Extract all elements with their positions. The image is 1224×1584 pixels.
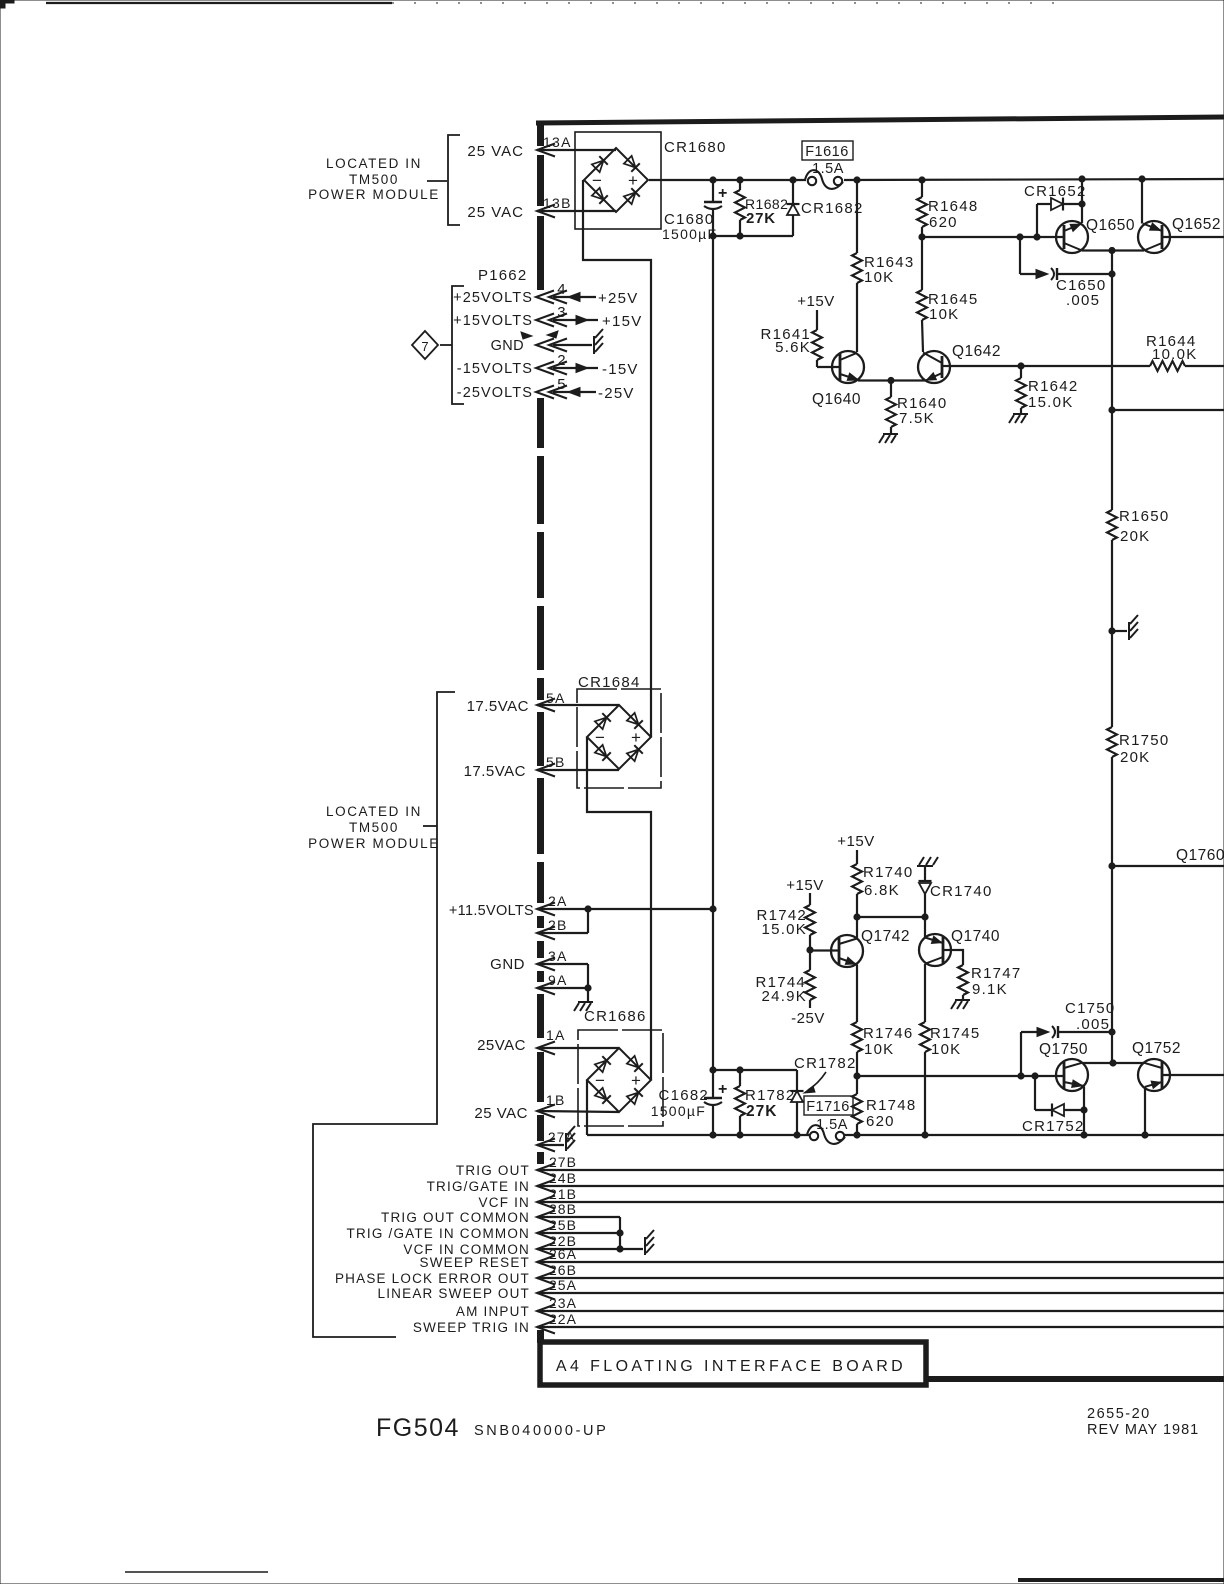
page bottom-left tick line xyxy=(125,1571,268,1573)
board outline: left dashed thick bar xyxy=(537,123,544,146)
svg-text:Q1642: Q1642 xyxy=(952,343,1001,360)
svg-text:25 VAC: 25 VAC xyxy=(467,143,524,160)
svg-text:1B: 1B xyxy=(546,1092,566,1108)
svg-text:R1648: R1648 xyxy=(928,198,978,215)
svg-text:24.9K: 24.9K xyxy=(762,988,807,1005)
svg-text:PHASE LOCK ERROR OUT: PHASE LOCK ERROR OUT xyxy=(335,1271,530,1286)
svg-text:Q1752: Q1752 xyxy=(1132,1040,1181,1057)
svg-text:REV MAY 1981: REV MAY 1981 xyxy=(1087,1422,1199,1438)
board outline: bottom thick line to edge xyxy=(926,1376,1224,1382)
svg-text:+15V: +15V xyxy=(602,313,642,330)
svg-text:27B: 27B xyxy=(549,1154,577,1170)
wire: Q1642 collector line to R1644 xyxy=(950,365,1150,367)
svg-text:CR1684: CR1684 xyxy=(578,674,641,691)
svg-text:27K: 27K xyxy=(746,1103,777,1120)
svg-text:A4 FLOATING INTERFACE BOARD: A4 FLOATING INTERFACE BOARD xyxy=(556,1358,906,1375)
svg-text:5.6K: 5.6K xyxy=(775,339,811,356)
svg-text:+15VOLTS: +15VOLTS xyxy=(453,313,533,329)
svg-text:Q1650: Q1650 xyxy=(1086,217,1135,234)
svg-text:LOCATED IN: LOCATED IN xyxy=(326,156,422,171)
svg-text:3: 3 xyxy=(557,304,567,321)
pin 22A SWEEP TRIG IN xyxy=(413,1311,1224,1335)
resistor R1742 15.0K xyxy=(757,905,815,950)
wire: common rail C1680 bottom to C1682 top xyxy=(712,236,714,1070)
wire: main vertical bus x=1112 xyxy=(1111,251,1113,511)
zener CR1682 xyxy=(787,180,864,236)
pin 22B VCF IN COMMON xyxy=(403,1233,643,1257)
svg-text:VCF IN: VCF IN xyxy=(479,1195,530,1210)
pin 5A 17.5VAC xyxy=(467,690,619,715)
ground for 9A xyxy=(574,1002,593,1011)
svg-text:TRIG OUT: TRIG OUT xyxy=(456,1163,530,1178)
svg-text:LINEAR SWEEP OUT: LINEAR SWEEP OUT xyxy=(378,1286,530,1301)
capacitor C1680 1500uF xyxy=(662,180,727,242)
svg-text:Q1760: Q1760 xyxy=(1176,847,1224,864)
diode CR1752 xyxy=(1022,1076,1085,1135)
svg-text:Q1640: Q1640 xyxy=(812,391,861,408)
pin 2 -15VOLTS xyxy=(457,352,639,378)
note: located in TM500 power module (upper) xyxy=(308,135,460,225)
svg-text:-25V: -25V xyxy=(598,385,635,402)
pin 23A AM INPUT xyxy=(456,1295,1224,1319)
pin 24B TRIG/GATE IN xyxy=(427,1170,1224,1194)
svg-text:+: + xyxy=(718,1081,727,1098)
svg-text:25VAC: 25VAC xyxy=(477,1037,526,1054)
svg-text:25B: 25B xyxy=(549,1217,577,1233)
svg-text:24B: 24B xyxy=(549,1170,577,1186)
svg-text:TM500: TM500 xyxy=(349,172,399,187)
svg-text:C1682: C1682 xyxy=(659,1087,709,1104)
svg-text:2B: 2B xyxy=(548,917,568,933)
svg-text:R1747: R1747 xyxy=(971,965,1021,982)
svg-text:R1650: R1650 xyxy=(1119,508,1169,525)
svg-text:5B: 5B xyxy=(546,754,566,770)
svg-text:2: 2 xyxy=(557,352,567,369)
page top-left corner tick xyxy=(0,0,14,8)
wire: bottom floating rail xyxy=(587,1134,810,1136)
wire: Q1640/Q1642 emitter rail xyxy=(858,379,925,381)
svg-text:4: 4 xyxy=(557,281,567,298)
bridge rectifier CR1686 xyxy=(578,1008,663,1126)
svg-text:10K: 10K xyxy=(929,306,959,323)
svg-text:13B: 13B xyxy=(543,195,572,211)
+15V for R1742 xyxy=(786,877,823,905)
transistor Q1742 xyxy=(810,928,910,967)
svg-text:20K: 20K xyxy=(1120,528,1150,545)
svg-text:6.8K: 6.8K xyxy=(864,882,900,899)
svg-text:+: + xyxy=(718,185,727,202)
resistor R1640 7.5K xyxy=(886,381,947,434)
+15V supply for R1641 xyxy=(797,293,834,330)
resistor R1746 10K xyxy=(852,965,913,1077)
resistor R1641 5.6K xyxy=(761,326,822,367)
svg-text:10K: 10K xyxy=(931,1041,961,1058)
svg-text:+: + xyxy=(628,171,638,190)
pin 25B TRIG /GATE IN COMMON xyxy=(347,1217,621,1241)
svg-text:CR1686: CR1686 xyxy=(584,1008,647,1025)
svg-text:1500µF: 1500µF xyxy=(651,1103,706,1119)
resistor R1745 10K xyxy=(920,964,980,1135)
ground under R1642 xyxy=(1009,414,1028,423)
svg-text:2655-20: 2655-20 xyxy=(1087,1406,1151,1422)
resistor R1782 27K xyxy=(735,1070,795,1135)
svg-text:POWER MODULE: POWER MODULE xyxy=(308,187,440,202)
svg-text:+15V: +15V xyxy=(837,833,874,850)
diode CR1782 xyxy=(791,1055,857,1135)
ground stub on bus xyxy=(1109,615,1138,640)
svg-text:17.5VAC: 17.5VAC xyxy=(464,763,526,780)
resistor R1644 10.0K xyxy=(1146,333,1224,371)
svg-text:Q1652: Q1652 xyxy=(1172,216,1221,233)
wire: rail above R1782 xyxy=(713,1069,797,1071)
wire: CR1686 minus to bottom rail xyxy=(586,1080,588,1135)
bridge rectifier CR1680 xyxy=(575,132,727,229)
svg-text:10.0K: 10.0K xyxy=(1152,346,1197,363)
diode CR1740 with chassis ground xyxy=(917,857,993,917)
resistor R1645 10K xyxy=(917,237,978,352)
transistor Q1652 xyxy=(1138,216,1224,253)
svg-text:POWER MODULE: POWER MODULE xyxy=(308,836,440,851)
svg-text:1.5A: 1.5A xyxy=(812,161,844,177)
svg-text:R1746: R1746 xyxy=(863,1025,913,1042)
wire: output line y=410 xyxy=(1109,407,1115,413)
svg-text:2A: 2A xyxy=(548,893,568,909)
svg-text:25 VAC: 25 VAC xyxy=(467,204,524,221)
svg-text:9.1K: 9.1K xyxy=(972,981,1008,998)
pin 21B VCF IN xyxy=(479,1186,1224,1210)
wire: +unregulated top rail xyxy=(649,179,806,181)
svg-text:27K: 27K xyxy=(746,210,776,227)
transistor Q1642 xyxy=(918,343,1001,383)
svg-text:13A: 13A xyxy=(543,134,572,150)
svg-text:Q1742: Q1742 xyxy=(861,928,910,945)
wire: Q1742 collector xyxy=(856,917,858,939)
svg-text:-25VOLTS: -25VOLTS xyxy=(457,385,533,401)
resistor R1750 20K xyxy=(1107,727,1169,766)
svg-text:17.5VAC: 17.5VAC xyxy=(467,698,529,715)
svg-text:GND: GND xyxy=(491,338,524,354)
+15V for R1740 xyxy=(837,833,874,864)
transistor Q1750 xyxy=(1039,1041,1088,1091)
svg-text:CR1680: CR1680 xyxy=(664,139,727,156)
svg-text:21B: 21B xyxy=(549,1186,577,1202)
resistor R1740 6.8K xyxy=(852,864,913,917)
svg-text:R1642: R1642 xyxy=(1028,378,1078,395)
wire: CR1680 minus to CR1684 plus xyxy=(583,180,651,737)
svg-text:7.5K: 7.5K xyxy=(899,410,935,427)
resistor R1650 20K xyxy=(1107,508,1169,545)
svg-text:7: 7 xyxy=(421,339,428,354)
svg-text:TM500: TM500 xyxy=(349,820,399,835)
svg-text:CR1682: CR1682 xyxy=(801,200,864,217)
resistor R1643 10K xyxy=(852,180,914,352)
wire: Q1750 base drive rail xyxy=(857,1075,1064,1077)
capacitor C1750 .005 xyxy=(1021,1000,1115,1076)
svg-text:C1750: C1750 xyxy=(1065,1000,1115,1017)
pin 1B 25VAC xyxy=(474,1092,619,1122)
svg-text:5A: 5A xyxy=(546,690,566,706)
board outline: top thick border xyxy=(536,117,1224,123)
svg-text:SWEEP RESET: SWEEP RESET xyxy=(420,1255,530,1270)
svg-text:TRIG/GATE IN: TRIG/GATE IN xyxy=(427,1179,530,1194)
pin 28B TRIG OUT COMMON xyxy=(381,1201,620,1225)
svg-text:26B: 26B xyxy=(549,1262,577,1278)
wire: 28B/25B/22B common tie xyxy=(619,1217,621,1249)
svg-text:TRIG /GATE IN COMMON: TRIG /GATE IN COMMON xyxy=(347,1226,531,1241)
page bottom-right edge bar xyxy=(1018,1578,1224,1582)
svg-text:+: + xyxy=(631,1071,641,1090)
svg-text:23A: 23A xyxy=(549,1295,577,1311)
ground under R1747 xyxy=(951,1000,970,1009)
wire: Q1650 base rail xyxy=(922,236,1064,238)
svg-text:LOCATED IN: LOCATED IN xyxy=(326,804,422,819)
svg-text:620: 620 xyxy=(866,1113,895,1130)
pin 2A +11.5VOLTS xyxy=(449,893,716,919)
wire: CR1684 minus down-around to CR1686 plus xyxy=(587,737,651,1080)
svg-text:GND: GND xyxy=(490,956,525,973)
svg-text:SWEEP TRIG IN: SWEEP TRIG IN xyxy=(413,1320,530,1335)
ground under R1640 xyxy=(879,434,898,443)
svg-text:+: + xyxy=(631,728,641,747)
svg-text:−: − xyxy=(592,171,602,190)
resistor R1744 24.9K xyxy=(756,950,815,1008)
svg-text:R1740: R1740 xyxy=(863,864,913,881)
svg-text:25 VAC: 25 VAC xyxy=(474,1105,528,1122)
pin 5B 17.5VAC xyxy=(464,754,619,780)
reference diamond 7 xyxy=(412,331,452,359)
wire: Q1650 collector to top rail xyxy=(1081,179,1083,223)
svg-text:5: 5 xyxy=(557,376,567,393)
fuse F1616 1.5A xyxy=(802,141,853,189)
wire: R1740/CR1740 node rail xyxy=(857,916,925,918)
svg-text:TRIG OUT COMMON: TRIG OUT COMMON xyxy=(381,1210,530,1225)
pin 26B PHASE LOCK ERROR OUT xyxy=(335,1262,1224,1286)
svg-text:620: 620 xyxy=(929,214,958,231)
svg-text:AM INPUT: AM INPUT xyxy=(456,1304,530,1319)
resistor R1642 15.0K xyxy=(1016,366,1078,413)
svg-text:CR1740: CR1740 xyxy=(930,883,993,900)
svg-text:−: − xyxy=(595,728,605,747)
svg-text:F1716: F1716 xyxy=(806,1099,850,1115)
transistor Q1740 xyxy=(919,928,1000,966)
transistor Q1650 xyxy=(1056,217,1135,253)
svg-text:FG504: FG504 xyxy=(376,1414,460,1442)
svg-text:15.0K: 15.0K xyxy=(1028,394,1073,411)
wire: Q1650/Q1652 lower rail xyxy=(1082,249,1144,251)
svg-text:+25VOLTS: +25VOLTS xyxy=(453,290,533,306)
wire: Q1752 emitter down xyxy=(1144,1087,1146,1135)
svg-text:Q1740: Q1740 xyxy=(951,928,1000,945)
svg-text:1500µF: 1500µF xyxy=(662,226,717,242)
svg-text:-15V: -15V xyxy=(602,361,639,378)
pin 13B 25VAC xyxy=(467,195,616,221)
svg-text:+25V: +25V xyxy=(598,290,638,307)
pin 1A 25VAC xyxy=(477,1027,619,1055)
pin 27A with chassis ground xyxy=(537,1126,576,1152)
svg-text:CR1782: CR1782 xyxy=(794,1055,857,1072)
svg-text:+15V: +15V xyxy=(797,293,834,310)
svg-text:20K: 20K xyxy=(1120,749,1150,766)
bridge rectifier CR1684 xyxy=(577,674,661,788)
capacitor C1682 1500uF xyxy=(651,1070,728,1135)
svg-text:+15V: +15V xyxy=(786,877,823,894)
svg-text:.005: .005 xyxy=(1076,1016,1110,1033)
wire: Q1740 collector xyxy=(924,917,926,938)
pin 13A 25VAC xyxy=(467,134,616,160)
pin 27B TRIG OUT xyxy=(456,1154,1224,1178)
diode CR1652 xyxy=(1024,183,1087,237)
svg-text:28B: 28B xyxy=(549,1201,577,1217)
svg-text:+11.5VOLTS: +11.5VOLTS xyxy=(449,903,534,919)
capacitor C1650 .005 xyxy=(1020,237,1115,309)
svg-text:3A: 3A xyxy=(548,948,568,964)
pin 26A SWEEP RESET xyxy=(420,1246,1224,1270)
transistor Q1752 xyxy=(1132,1040,1224,1091)
svg-text:15.0K: 15.0K xyxy=(762,921,807,938)
node/wire to Q1760 xyxy=(1109,847,1224,869)
note: located in TM500 power module (lower) xyxy=(308,692,455,1337)
svg-text:-15VOLTS: -15VOLTS xyxy=(457,361,533,377)
pin 25A LINEAR SWEEP OUT xyxy=(378,1277,1224,1301)
svg-text:−: − xyxy=(595,1071,605,1090)
pin 4 +25VOLTS xyxy=(453,281,638,307)
pin 3 +15VOLTS xyxy=(453,304,642,330)
svg-text:F1616: F1616 xyxy=(805,144,849,160)
resistor R1748 620 xyxy=(852,1076,916,1135)
svg-text:26A: 26A xyxy=(549,1246,577,1262)
svg-text:1A: 1A xyxy=(546,1027,566,1043)
wire: Q1750 emitter down xyxy=(1083,1087,1085,1136)
svg-text:SNB040000-UP: SNB040000-UP xyxy=(474,1423,608,1439)
ground for 22B common xyxy=(645,1230,654,1255)
transistor Q1640 xyxy=(812,351,864,408)
resistor R1648 620 xyxy=(917,180,978,237)
svg-text:22A: 22A xyxy=(549,1311,577,1327)
svg-text:CR1652: CR1652 xyxy=(1024,183,1087,200)
svg-text:Q1750: Q1750 xyxy=(1039,1041,1088,1058)
pin 3A GND xyxy=(490,948,588,988)
wire: Q1652 collector to top rail xyxy=(1141,179,1143,224)
svg-text:9A: 9A xyxy=(548,972,568,988)
svg-text:R1782: R1782 xyxy=(745,1087,795,1104)
wire: C1680/R1682/CR1682 bottom rail xyxy=(713,235,793,237)
page top edge line xyxy=(46,2,392,4)
svg-text:10K: 10K xyxy=(864,1041,894,1058)
resistor R1747 9.1K xyxy=(958,950,1021,999)
wire: Q1750/Q1752 collector rail xyxy=(1082,1062,1144,1064)
resistor R1682 27K xyxy=(735,180,788,236)
connector P1662 xyxy=(452,267,527,404)
pin 5 -25VOLTS xyxy=(457,376,635,402)
pin GND xyxy=(491,329,603,354)
svg-text:10K: 10K xyxy=(864,269,894,286)
title box: A4 FLOATING INTERFACE BOARD xyxy=(540,1342,926,1385)
svg-text:.005: .005 xyxy=(1066,292,1100,309)
svg-text:CR1752: CR1752 xyxy=(1022,1118,1085,1135)
svg-text:1.5A: 1.5A xyxy=(816,1117,848,1133)
svg-text:25A: 25A xyxy=(549,1277,577,1293)
svg-text:R1748: R1748 xyxy=(866,1097,916,1114)
svg-text:R1750: R1750 xyxy=(1119,732,1169,749)
pin 2B xyxy=(537,909,588,940)
svg-text:R1745: R1745 xyxy=(930,1025,980,1042)
pin 9A xyxy=(537,972,591,1001)
svg-text:-25V: -25V xyxy=(791,1010,825,1027)
fuse F1716 1.5A xyxy=(804,1096,853,1144)
svg-text:P1662: P1662 xyxy=(478,267,527,284)
